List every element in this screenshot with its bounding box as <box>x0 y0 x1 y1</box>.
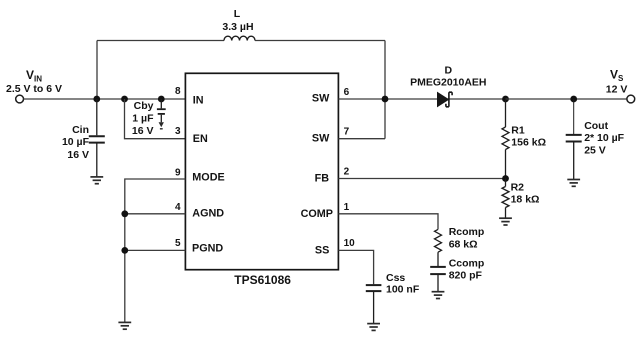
svg-text:R1: R1 <box>511 125 525 137</box>
svg-text:TPS61086: TPS61086 <box>234 273 291 287</box>
wire: top loop from input node to inductor <box>97 40 224 42</box>
svg-text:10: 10 <box>344 238 356 249</box>
svg-text:R2: R2 <box>511 182 525 194</box>
capacitor Ccomp <box>430 252 446 291</box>
svg-text:820 pF: 820 pF <box>449 269 483 281</box>
svg-text:D: D <box>445 64 453 76</box>
wire: SW pin7 stub <box>338 138 385 140</box>
svg-text:4: 4 <box>175 202 181 213</box>
output terminal VS <box>627 95 635 103</box>
capacitor Cin <box>89 99 105 177</box>
wire: FB to divider <box>338 178 505 180</box>
svg-text:1 µF: 1 µF <box>132 113 154 125</box>
svg-text:SS: SS <box>315 245 329 257</box>
wire: PGND stub <box>125 249 186 251</box>
svg-text:8: 8 <box>175 86 181 97</box>
resistor R2 <box>502 179 509 219</box>
svg-text:FB: FB <box>315 173 330 185</box>
svg-text:16 V: 16 V <box>132 125 154 137</box>
svg-text:Css: Css <box>386 272 405 284</box>
svg-text:2: 2 <box>344 167 350 178</box>
node: FB divider junction <box>502 175 509 182</box>
wire: left vertical from top loop down to input rail <box>96 41 98 100</box>
wire: AGND stub <box>125 213 186 215</box>
svg-text:Cby: Cby <box>134 100 154 112</box>
node: SW junction <box>382 96 389 103</box>
wire: SS to Css <box>338 250 373 284</box>
svg-text:Ccomp: Ccomp <box>449 258 485 270</box>
wire: right vertical from top loop down to SW pins <box>384 41 386 139</box>
wire: output rail to terminal <box>506 98 627 100</box>
capacitor Cout <box>566 99 582 179</box>
inductor L coil <box>224 36 255 40</box>
svg-text:PGND: PGND <box>192 242 223 254</box>
svg-text:EN: EN <box>193 133 208 145</box>
svg-text:10 µF: 10 µF <box>62 136 90 148</box>
svg-text:PMEG2010AEH: PMEG2010AEH <box>410 77 486 89</box>
input terminal VIN <box>16 95 24 103</box>
ground under MODE/AGND/PGND chain <box>118 322 131 329</box>
svg-text:7: 7 <box>344 127 350 138</box>
node: Cby junction <box>158 96 165 103</box>
ground under Cin <box>90 177 103 184</box>
wire: inductor to right vertical <box>255 40 385 42</box>
resistor R1 <box>502 99 509 179</box>
ground under Css <box>367 324 380 331</box>
node: AGND junction <box>121 210 128 217</box>
wire: MODE branch left and down to ground <box>125 179 186 322</box>
resistor Rcomp <box>435 229 442 252</box>
svg-text:12 V: 12 V <box>606 83 628 95</box>
wire: input rail to IN pin <box>24 98 186 100</box>
ground under Cout <box>567 180 580 187</box>
svg-text:COMP: COMP <box>301 208 333 220</box>
svg-text:2.5 V to 6 V: 2.5 V to 6 V <box>6 83 62 95</box>
svg-text:Cin: Cin <box>72 124 89 136</box>
svg-text:18 kΩ: 18 kΩ <box>511 194 540 206</box>
svg-text:Cout: Cout <box>584 120 608 132</box>
node: Cout junction <box>570 96 577 103</box>
svg-text:100 nF: 100 nF <box>386 283 420 295</box>
svg-text:SW: SW <box>312 133 330 145</box>
capacitor Cby <box>157 99 166 122</box>
svg-text:Rcomp: Rcomp <box>449 226 485 238</box>
svg-text:68 kΩ: 68 kΩ <box>449 238 478 250</box>
svg-text:3: 3 <box>175 126 181 137</box>
svg-text:9: 9 <box>175 168 181 179</box>
svg-text:6: 6 <box>344 87 350 98</box>
svg-text:5: 5 <box>175 238 181 249</box>
diode D PMEG2010AEH <box>438 92 453 107</box>
svg-text:IN: IN <box>193 95 204 107</box>
svg-text:156 kΩ: 156 kΩ <box>511 137 546 149</box>
wire: SW pin6 to output diode rail <box>338 98 505 100</box>
node: EN branch junction <box>121 96 128 103</box>
node: input/Cin junction <box>93 96 100 103</box>
ground arrow under Cby <box>159 122 164 127</box>
svg-text:25 V: 25 V <box>584 144 606 156</box>
op IC U1 TPS61086 body <box>185 73 338 269</box>
wire: EN branch from input rail down and right to EN pin <box>125 99 186 139</box>
svg-text:MODE: MODE <box>192 172 224 184</box>
svg-text:16 V: 16 V <box>67 149 89 161</box>
svg-text:L: L <box>234 8 241 20</box>
capacitor Css <box>366 285 382 323</box>
ground under R2 <box>499 218 512 225</box>
svg-text:2* 10 µF: 2* 10 µF <box>584 132 624 144</box>
svg-text:AGND: AGND <box>192 207 224 219</box>
node: R1 top junction <box>502 96 509 103</box>
wire: COMP to compensation network <box>338 214 438 230</box>
ground under Ccomp <box>432 292 445 299</box>
svg-text:3.3 µH: 3.3 µH <box>222 21 253 33</box>
svg-text:SW: SW <box>312 93 330 105</box>
node: PGND junction <box>121 247 128 254</box>
svg-text:V: V <box>610 68 618 82</box>
svg-text:1: 1 <box>344 202 350 213</box>
svg-text:S: S <box>618 74 624 83</box>
svg-text:V: V <box>26 68 34 82</box>
